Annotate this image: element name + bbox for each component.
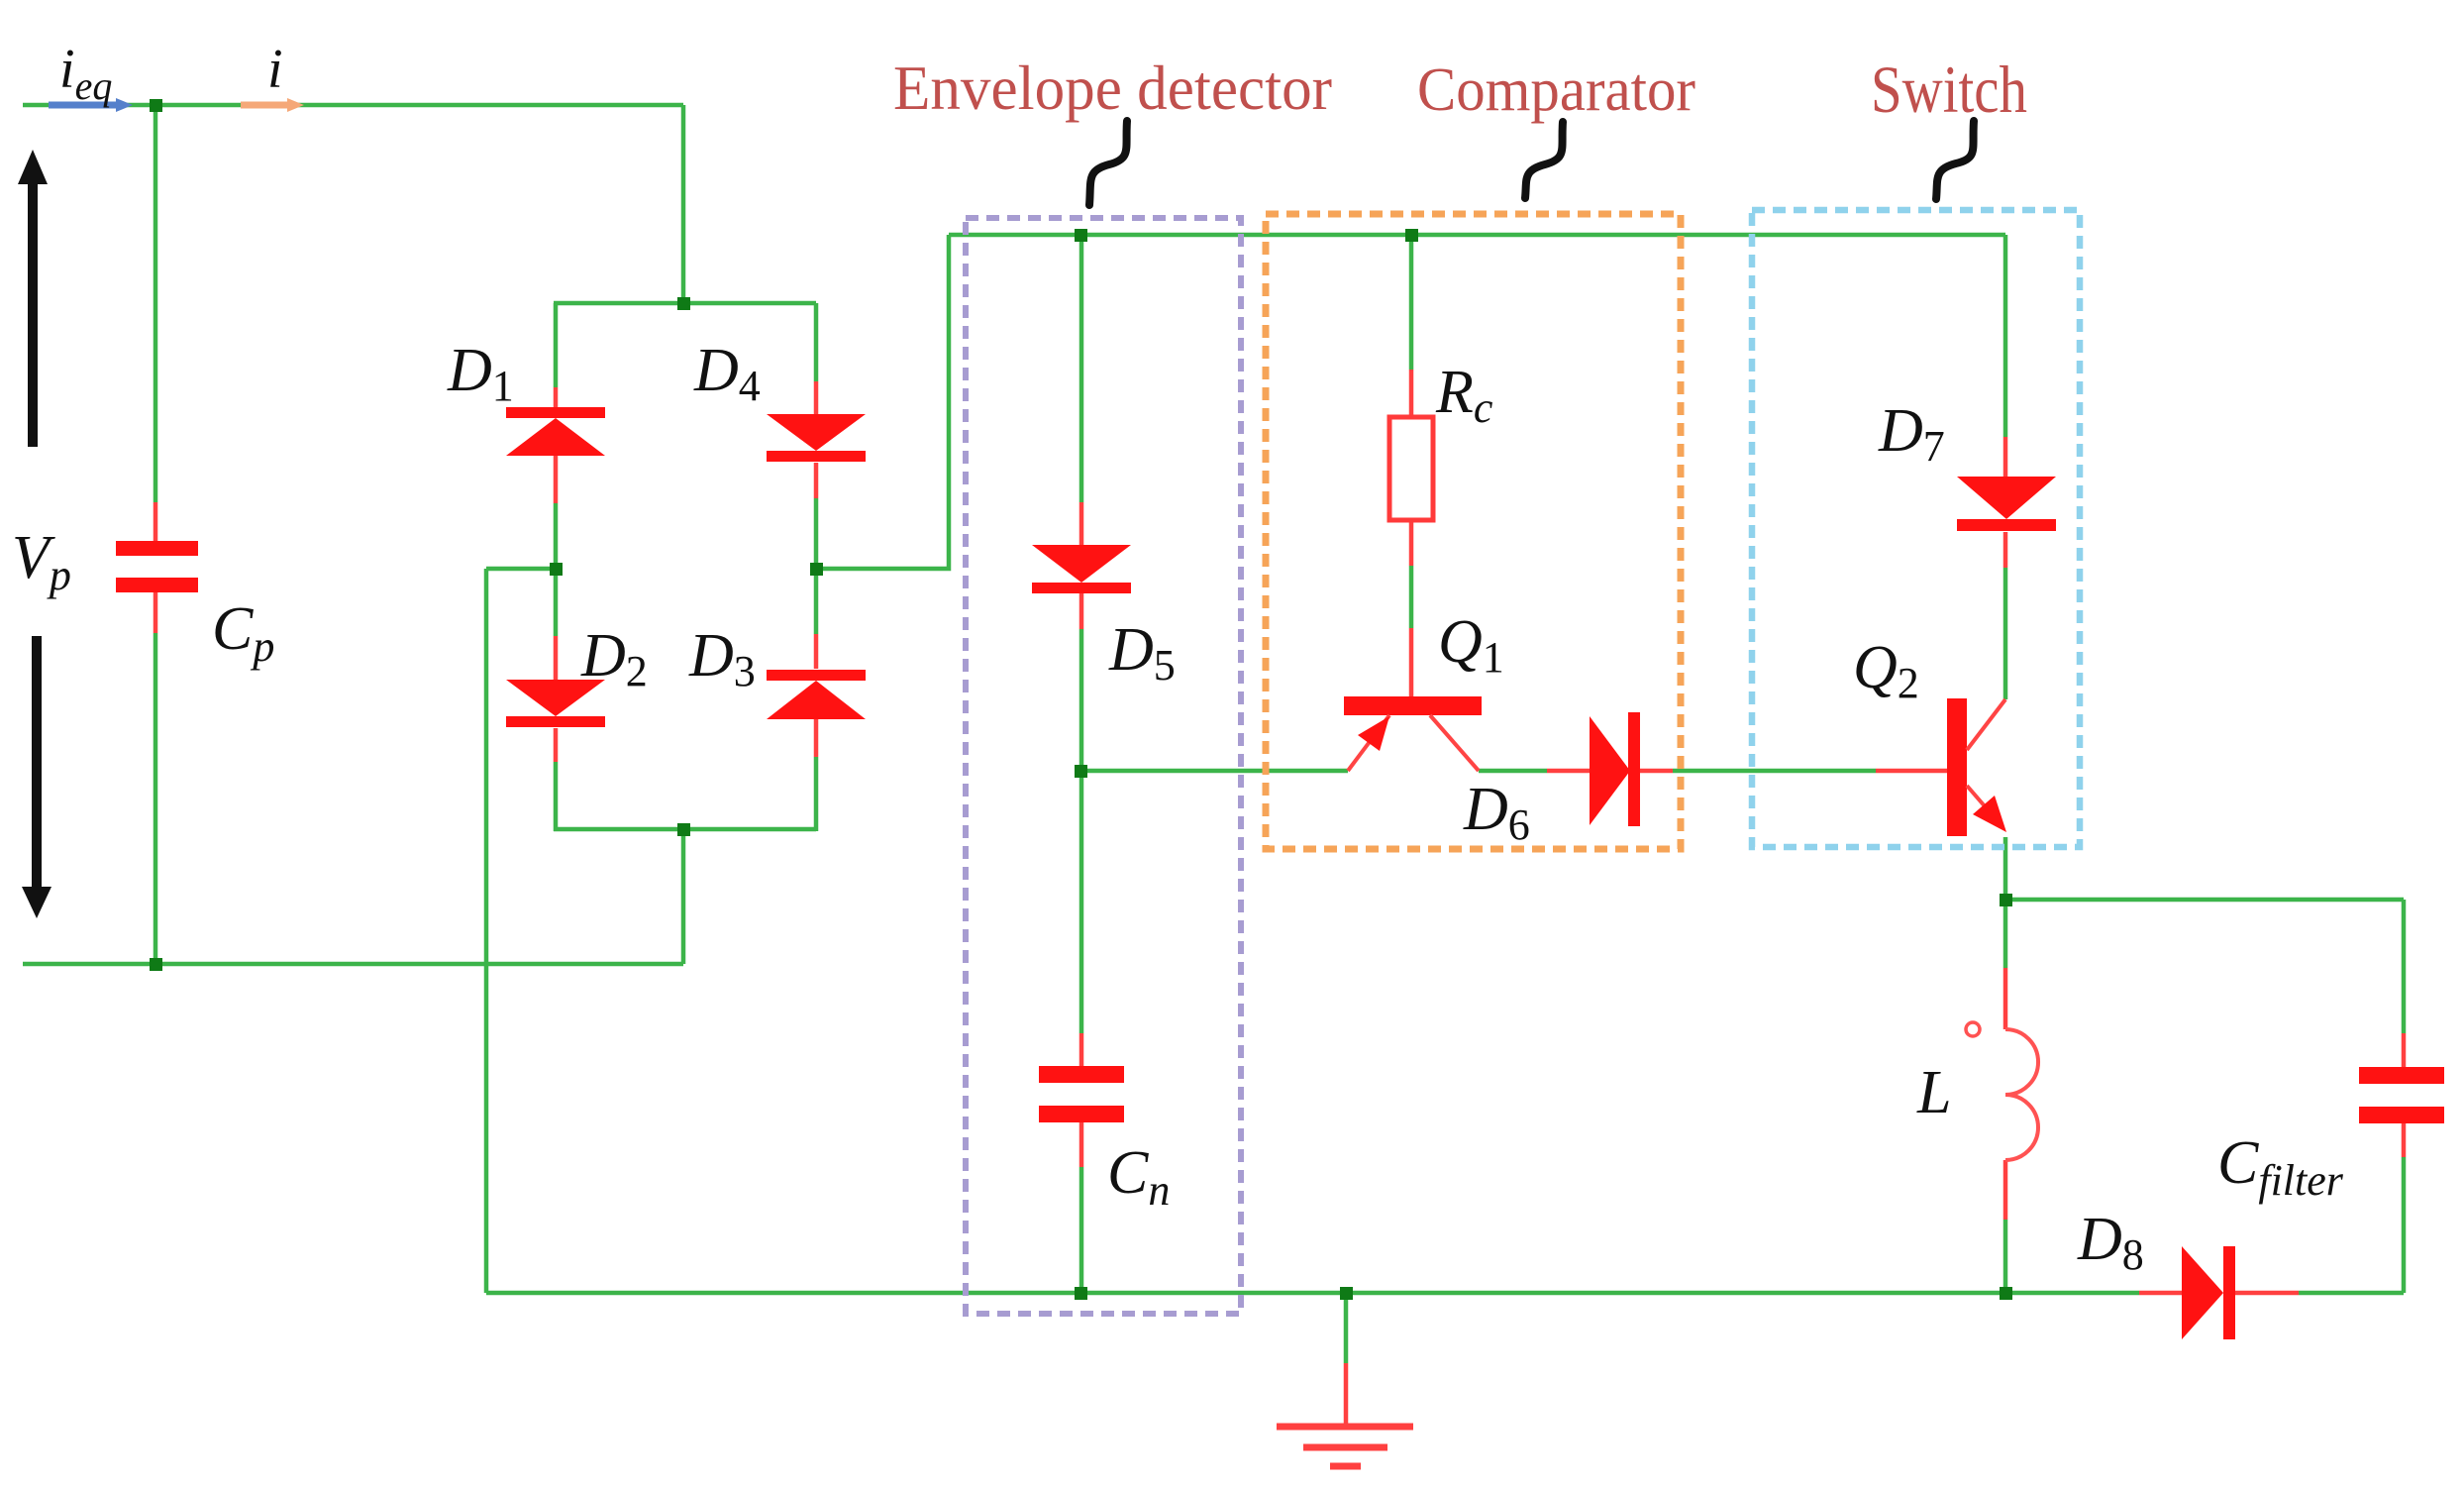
wire Cfilter leads xyxy=(2402,1033,2407,1157)
inductor L xyxy=(1966,1022,2038,1160)
wire D1 top lead xyxy=(554,303,559,387)
wire D5 top xyxy=(1079,235,1084,502)
diode D8 xyxy=(2182,1246,2235,1339)
ground xyxy=(1277,1427,1413,1466)
node L top xyxy=(2000,894,2012,906)
wire out top xyxy=(2005,898,2404,903)
brace comparator xyxy=(1525,122,1563,198)
wire D8 leads xyxy=(2139,1291,2299,1296)
node D5 bottom xyxy=(1075,765,1087,778)
wire Cfilter top xyxy=(2402,900,2407,1033)
wire Q1 collector xyxy=(1409,628,1414,696)
wire bridge top xyxy=(554,301,816,306)
wire Q2 base lead xyxy=(1876,769,1947,774)
box comparator xyxy=(1266,214,1681,849)
arrow Vp up xyxy=(18,150,48,447)
diode D1 xyxy=(506,407,605,456)
wire D1 leads xyxy=(554,387,559,503)
capacitor Cn xyxy=(1039,1066,1124,1122)
svg-text:L: L xyxy=(1916,1059,1951,1126)
wire D7 drop xyxy=(2003,235,2008,437)
diode D4 xyxy=(767,414,866,462)
node bridge top xyxy=(677,297,690,310)
wire D7 leads xyxy=(2003,437,2008,568)
wire Cp leads xyxy=(154,502,158,633)
wire left mid stub xyxy=(486,567,556,572)
diode D6 xyxy=(1590,712,1640,826)
box envelope detector xyxy=(966,218,1241,1314)
wire Rc top xyxy=(1409,235,1414,370)
wire left mid drop xyxy=(484,569,489,1293)
node Rc top xyxy=(1405,229,1418,242)
brace envelope xyxy=(1089,121,1127,205)
wire D7 to Q2 collector xyxy=(2003,568,2008,699)
wire Rc leads xyxy=(1409,370,1414,566)
node L bottom xyxy=(2000,1287,2012,1300)
wire D3 bottom xyxy=(814,757,819,831)
node input xyxy=(150,99,162,112)
wire detector rail xyxy=(949,233,2005,238)
box switch xyxy=(1752,210,2080,847)
wire D2 leads xyxy=(554,636,559,762)
wire bottom left rail xyxy=(23,962,683,967)
arrow i xyxy=(241,98,304,112)
wire D4-D3 mid xyxy=(814,498,819,634)
svg-text:Envelope detector: Envelope detector xyxy=(893,53,1332,123)
wire Cp top xyxy=(154,105,158,502)
wire ground tap xyxy=(1344,1293,1349,1363)
wire Cn leads xyxy=(1079,1033,1084,1167)
RED-LEADS xyxy=(155,370,2404,1424)
DASHED-BOXES xyxy=(966,210,2080,1314)
arrow Vp down xyxy=(22,636,51,918)
wire Rc bottom seg xyxy=(1409,566,1414,628)
wire Cn bottom xyxy=(1079,1167,1084,1293)
svg-text:Comparator: Comparator xyxy=(1417,56,1695,124)
capacitor Cp xyxy=(116,541,198,592)
node ground xyxy=(1340,1287,1353,1300)
wire bottom rail left xyxy=(486,1291,2139,1296)
diode D3 xyxy=(767,670,866,719)
wire Cfilter bottom xyxy=(2402,1157,2407,1293)
wire bottom rail right xyxy=(2299,1291,2404,1296)
wire Q1 to D6 xyxy=(1479,769,1547,774)
wire top rail xyxy=(23,103,683,108)
transistor Q2 xyxy=(1947,698,2006,836)
wire D4 leads xyxy=(814,381,819,498)
wire D1-D2 mid xyxy=(554,503,559,636)
wire D5 leads xyxy=(1079,502,1084,629)
wire D5 bottom to node xyxy=(1079,629,1084,771)
svg-text:i: i xyxy=(267,39,283,100)
diode D7 xyxy=(1957,477,2056,531)
node bridge bottom xyxy=(677,823,690,836)
brace switch xyxy=(1936,121,1974,199)
wire D6 leads xyxy=(1547,769,1673,774)
wire input drop to bridge xyxy=(681,105,686,303)
transistor Q1 xyxy=(1344,696,1482,771)
node bridge left mid xyxy=(550,563,563,576)
svg-text:Switch: Switch xyxy=(1871,52,2027,127)
wire D6 to Q2 xyxy=(1673,769,1876,774)
arrow ieq xyxy=(49,98,133,112)
wire bridge bottom xyxy=(554,827,816,832)
wire L bottom xyxy=(2003,1220,2008,1293)
wire D3 leads xyxy=(814,634,819,757)
JUNCTION-DOTS xyxy=(150,99,2012,1300)
wire right mid jog xyxy=(816,235,949,569)
node Cn bottom xyxy=(1075,1287,1087,1300)
wire base rail left xyxy=(1081,769,1348,774)
diode D2 xyxy=(506,680,605,727)
wire L leads xyxy=(2003,968,2008,1220)
diode D5 xyxy=(1032,545,1131,593)
wire Q2 emitter down xyxy=(2003,837,2008,968)
wire ground lead xyxy=(1344,1363,1349,1424)
wire bridge bottom center drop xyxy=(681,829,686,964)
wire Cp bottom xyxy=(154,633,158,964)
wire D4 top lead xyxy=(814,303,819,381)
node bridge right mid xyxy=(810,563,823,576)
wire node to Cn xyxy=(1079,771,1084,1033)
TITLES xyxy=(893,52,2027,127)
capacitor Cfilter xyxy=(2359,1067,2444,1123)
node D5 top xyxy=(1075,229,1087,242)
node Cp bottom xyxy=(150,958,162,971)
resistor Rc xyxy=(1389,417,1433,520)
wire D2 bottom xyxy=(554,762,559,831)
